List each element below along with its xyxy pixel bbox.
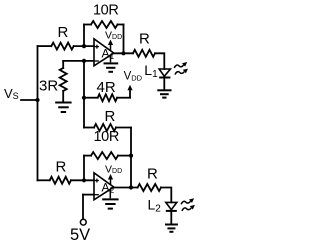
wire right vertical (A2 output node) <box>130 128 132 188</box>
wire A1 - input <box>63 60 94 62</box>
svg-text:R: R <box>105 108 116 125</box>
wire feedback right vertical <box>123 25 125 54</box>
resistor R (L1 series) <box>133 50 155 57</box>
wire A2 - input <box>83 194 94 196</box>
node A2 output junction <box>129 185 133 189</box>
svg-text:10R: 10R <box>93 3 118 19</box>
power VDD arrow (A2) <box>105 163 122 184</box>
node Vs junction <box>35 98 39 102</box>
svg-text:5V: 5V <box>70 226 90 244</box>
svg-text:R: R <box>56 159 67 176</box>
op-amp A2 <box>94 173 115 200</box>
resistor R (A2 + input) <box>38 179 50 181</box>
ground (L2) <box>165 225 178 232</box>
svg-text:R: R <box>147 165 158 182</box>
node 10R right junction <box>129 154 133 158</box>
node 4R junction <box>82 96 86 100</box>
ground (3R) <box>55 103 71 113</box>
resistor 3R <box>62 61 64 68</box>
wire R to L1 <box>155 53 164 69</box>
wire L1 to ground <box>163 78 165 90</box>
resistor R (L2 series) <box>138 184 161 191</box>
wire R to A1 + input <box>74 45 94 47</box>
wire Vs stub <box>21 99 38 101</box>
node A2 + input junction <box>82 178 86 182</box>
wire feedback left vertical <box>83 25 85 47</box>
resistor R (A1 - to A2 out) <box>84 127 94 129</box>
ground (A2 power) <box>102 189 118 209</box>
resistor 10R (A1 feedback) <box>84 24 91 26</box>
ground (A1 power) <box>104 55 119 72</box>
wire R to L2 <box>161 188 171 203</box>
wire A1 output <box>114 52 133 54</box>
ground (L1) <box>157 90 171 97</box>
wire feedback left vertical (A2) <box>83 156 85 181</box>
power VDD arrow (A1) <box>105 29 122 50</box>
LED L2 light arrows <box>181 198 195 211</box>
svg-text:R: R <box>139 31 150 48</box>
svg-text:10R: 10R <box>94 129 119 145</box>
wire A2 - to 5V terminal <box>82 195 84 220</box>
wire A2 output <box>114 187 138 189</box>
wire A1 - node vertical <box>83 61 85 128</box>
wire left bus <box>37 46 39 180</box>
LED L1 light arrows <box>174 62 188 75</box>
LED L2 <box>166 202 177 211</box>
op-amp A1 <box>94 39 115 66</box>
LED L1 <box>159 69 170 78</box>
node A1 - input junction <box>82 59 86 63</box>
power VDD arrow (4R) <box>124 71 143 98</box>
resistor 10R (A2 feedback) <box>84 155 91 157</box>
terminal 5V <box>80 219 86 225</box>
svg-text:R: R <box>58 24 69 41</box>
resistor 4R <box>84 97 98 99</box>
node A1 output junction <box>121 51 125 55</box>
resistor R (A1 + input) <box>38 45 52 47</box>
wire L2 to ground <box>170 211 172 224</box>
node A1 + input junction <box>82 44 86 48</box>
svg-text:3R: 3R <box>39 78 58 95</box>
wire R to A2 + input <box>71 179 94 181</box>
